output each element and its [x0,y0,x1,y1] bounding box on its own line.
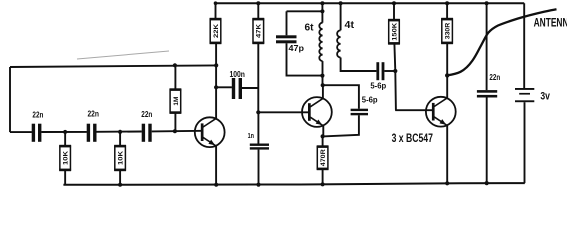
wire Q2 base wire [258,111,310,113]
svg-text:22n: 22n [32,110,43,119]
svg-text:330R: 330R [445,23,452,40]
wire 10K-2 top lead [119,132,121,146]
capacitor C2 22n plates [87,124,90,142]
wire 22n-right bottom lead [486,98,488,184]
svg-text:5-6p: 5-6p [362,95,378,105]
battery B1 3v plates [515,88,534,90]
wire 22n-right top lead [486,3,488,90]
svg-text:22n: 22n [141,110,152,119]
wire base ladder segment a [10,131,32,133]
capacitor C6 47p plates [276,35,297,38]
wire C8 bottom link [323,115,359,136]
wire +V top supply bus [216,2,525,4]
node +V / 330R [445,1,449,5]
node gnd / 1n [256,183,260,187]
capacitor C1 22n plates [32,124,35,142]
node +V / 22n [485,1,489,5]
wire 47p bottom lead [287,43,323,75]
wire 100n right lead [242,87,258,89]
svg-text:150K: 150K [391,23,398,41]
transistor Q3 BC547 [426,97,456,127]
svg-text:22n: 22n [87,110,99,119]
node ladder / 10K-2 [118,130,122,134]
resistor R7 470R [317,147,328,170]
resistor R5 47K [253,19,264,43]
wire 1n bottom lead [258,150,260,185]
svg-text:1M: 1M [173,96,180,105]
wire 10K-2 bottom lead [119,170,121,185]
wire base ladder segment b [41,131,87,133]
transistor Q1 BC547 [195,117,225,147]
svg-text:22K: 22K [213,24,220,38]
svg-text:1n: 1n [248,131,254,140]
node gnd / 10K-2 [118,183,122,187]
svg-text:22n: 22n [489,73,500,82]
wire 10K-1 bottom lead [64,170,66,185]
node 5-6p / 150K [393,69,397,73]
node +V / 47K [256,1,260,5]
wire 6t bottom lead [322,61,324,85]
wire Q2 collector vertical [322,85,324,99]
wire 150K to Q3 base [395,71,433,110]
node +V / 150K [392,1,396,5]
node +V / 22K [214,1,218,5]
wire 1M bottom lead [174,113,176,132]
wire left vertical of feedback loop [9,67,11,132]
node gnd / Q3 emitter [445,181,449,185]
wire 330R top lead [446,3,448,19]
resistor R2 10K [115,146,126,170]
svg-text:4t: 4t [345,20,355,31]
svg-text:ANTENNA: ANTENNA [534,16,567,30]
wire Q1 emitter vertical [215,146,217,185]
transistor Q2 BC547 [302,97,332,127]
capacitor C8 5-6p plates [351,109,368,111]
svg-text:10K: 10K [63,151,70,165]
wire 47p to tank top link [287,10,323,12]
capacitor C4 100n plates [232,78,235,99]
svg-text:3 x BC547: 3 x BC547 [392,133,433,145]
wire 470R bottom lead [322,169,324,184]
wire 22K top lead [215,3,217,19]
node gnd / 470R [321,182,325,186]
wire ground bottom bus [63,183,524,185]
svg-text:5-6p: 5-6p [370,80,386,90]
wire 1n top lead [257,112,259,143]
svg-text:3v: 3v [540,90,550,102]
wire Q2 emitter vertical [322,126,324,137]
resistor R1 10K [60,146,71,170]
wire antenna curve [447,9,556,75]
wire 5-6p right lead [384,70,395,72]
wire base ladder segment c [97,131,142,133]
node +V / 4t [339,1,343,5]
node Q3 collector / antenna [445,73,449,77]
wire base ladder segment d [152,130,203,133]
wire 4t top lead [340,3,342,30]
wire 1M top lead [174,65,176,89]
wire 47K top lead [257,3,259,19]
capacitor C7 5-6p plates [376,62,379,80]
node tank bottom [320,74,324,78]
svg-text:10K: 10K [118,151,125,165]
node Q2 collector / C8 [321,83,325,87]
resistor R4 22K [210,19,221,43]
wire 47K bottom vertical [257,43,259,112]
svg-text:47K: 47K [256,24,263,38]
capacitor C5 1n plates [250,144,269,146]
wire Q1 collector vertical [215,43,217,119]
node +V / 6t [320,1,324,5]
wire 6t top lead [321,3,323,23]
node ladder / 1M [173,129,177,133]
svg-text:6t: 6t [305,23,315,34]
wire C8 top link [323,85,359,109]
wire battery bottom lead [524,102,526,183]
wire 10K-1 top lead [64,132,66,146]
node gnd / 22n [485,181,489,185]
node Q2 base / 47K [256,110,260,114]
svg-text:100n: 100n [230,70,245,79]
node feedback line / collector [214,63,218,67]
node 47p top / tank [320,9,324,13]
node gnd / Q1 emitter [214,183,218,187]
resistor R8 330R [442,19,453,43]
wire 100n left lead [216,86,232,88]
wire Q3 collector vertical [446,43,448,98]
node Q2 emitter / C8 / 470R [321,134,325,138]
wire faint scan artifact [77,51,169,59]
capacitor C3 22n plates [142,124,145,142]
wire battery top lead [523,3,525,88]
svg-text:470R: 470R [320,149,327,166]
wire 47p top lead [286,11,288,35]
inductor L2 4t coil [337,30,340,57]
capacitor C9 22n plates [477,90,497,93]
resistor R6 150K [389,20,400,44]
node ladder / 10K-1 [63,130,67,134]
inductor L1 6t coil [319,23,322,61]
wire 150K bottom vertical [393,44,396,72]
resistor R3 1M [170,90,181,113]
wire 470R top lead [322,136,324,146]
wire collector-feedback top line (node F) [10,65,216,67]
wire Q3 emitter vertical [446,126,448,184]
wire 4t bottom lead [341,58,377,72]
svg-text:47p: 47p [289,43,305,53]
wire 150K top lead [393,3,395,20]
node feedback line / 1M [173,63,177,67]
node Q1 collector / 100n [214,85,218,89]
